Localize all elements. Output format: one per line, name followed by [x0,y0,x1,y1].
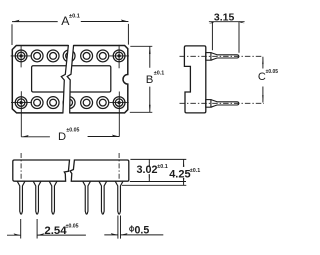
dimension dia 0.5 (pin diameter) [104,216,163,239]
crosshair hole pin1 [11,45,32,67]
svg-text:±0.1: ±0.1 [157,164,167,170]
front body left block [13,160,70,181]
svg-text:0.5: 0.5 [135,224,150,236]
svg-text:±0.05: ±0.05 [266,69,279,75]
hole pin2 [31,50,43,62]
pin 6 (front) [115,181,123,214]
dimension D (hole row span) [21,136,119,138]
svg-text:B: B [146,74,154,86]
centerline pin6 (front) [118,153,120,179]
svg-text:3.15: 3.15 [214,12,235,24]
dimension A (overall length) [12,22,128,46]
dimension 3.02 [148,159,150,181]
crosshair hole pin14 + extension to D [11,91,32,137]
hole pin8 (corner, with center mark) [113,97,125,109]
centerline top pin row [180,55,264,57]
dimension 2.54 (pin pitch) [7,219,86,239]
center cavity rectangle [32,66,111,92]
pin holes bottom row [15,97,125,109]
break line left [61,45,68,114]
hole pin1 (corner, with center mark) [15,50,27,62]
hole pin9 [97,97,109,109]
hole pin3 [47,50,59,62]
hole pin11 (partial at break) [63,97,75,109]
svg-text:D: D [58,131,66,143]
hole pin7 (corner, with center mark) [113,50,125,62]
hole pin13 [31,97,43,109]
hole pin10 [81,97,93,109]
center marks (crosshairs) on corner holes [11,45,129,137]
dimension 4.25 [183,159,185,185]
socket body outline (top view) with right-edge notch [12,46,128,113]
dimension C (row spacing, right of side view) [262,57,264,103]
dimension 3.15 (pin length) [209,22,245,53]
break line right [67,45,73,114]
svg-text:±0.1: ±0.1 [69,14,80,20]
pin 1 (front) [17,181,25,214]
crosshair hole pin7 [109,45,129,68]
hole pin14 (corner, with center mark) [15,97,27,109]
pin 5 (front) [99,181,107,214]
hole pin4 (partial at break) [63,50,75,62]
hole pin6 [97,50,109,62]
pin holes top row [15,50,125,62]
pin collar top (side view) [206,53,211,61]
svg-text:2.54: 2.54 [44,225,67,237]
pin top (side view): taper + rod [211,53,239,61]
front body right block [70,160,129,181]
hole pin12 [47,97,59,109]
dimension 3.02 and 4.25 extension lines [122,159,186,185]
crosshair hole pin8 + extension to D [110,92,129,137]
svg-text:±0.05: ±0.05 [66,223,79,229]
svg-text:3.02: 3.02 [136,164,157,176]
label phi 0.5 [130,227,134,231]
centerline bottom pin row [180,102,265,104]
side body profile [184,46,205,113]
pin collar bottom (side view) [206,100,211,108]
pin 2 (front) [33,181,41,214]
svg-text:±0.1: ±0.1 [154,71,164,77]
pin 4 (front) [83,181,91,214]
centerline pin1 (front) [20,153,22,179]
svg-text:±0.05: ±0.05 [66,128,79,134]
hole pin5 [81,50,93,62]
pin bottom (side view): taper + rod [211,100,239,108]
dimension B (overall width, right of top view) [130,46,153,112]
pin 3 (front) [49,181,57,214]
break (broken-out section) white mask [61,44,73,114]
svg-text:±0.1: ±0.1 [190,168,200,174]
svg-text:4.25: 4.25 [169,169,190,181]
